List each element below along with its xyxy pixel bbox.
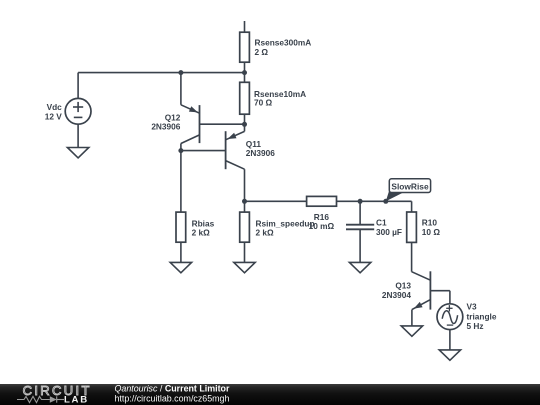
- ground below C1: [349, 262, 370, 272]
- label Q11 2N3906: [246, 139, 275, 158]
- svg-text:V3: V3: [467, 302, 478, 312]
- svg-text:10 Ω: 10 Ω: [422, 227, 441, 237]
- wire C1 bottom: [359, 229, 361, 262]
- svg-text:5 Hz: 5 Hz: [467, 321, 484, 331]
- junction Q11 collector / R16 rail: [242, 199, 247, 204]
- ground below Vdc: [67, 148, 88, 158]
- transistor Q13 (NPN 2N3904): [412, 271, 450, 326]
- wire node to R16 left: [245, 200, 307, 202]
- svg-text:2 Ω: 2 Ω: [255, 47, 269, 57]
- wire Vdc top: [77, 73, 79, 99]
- junction node below Rsense10mA (Q12 base / Q11 emitter): [242, 122, 247, 127]
- transistor Q12 (PNP 2N3906): [181, 73, 245, 151]
- svg-text:2N3906: 2N3906: [151, 122, 180, 132]
- wire R10 bottom to Q13 collector: [411, 242, 413, 271]
- svg-text:12 V: 12 V: [45, 111, 63, 121]
- label Q12 2N3906: [151, 113, 180, 132]
- footer bar: [0, 384, 540, 405]
- svg-text:Qantourisc / Current Limitor: Qantourisc / Current Limitor: [115, 383, 230, 393]
- wire Rsim_speedup bottom: [244, 242, 246, 262]
- ground below Q13 emitter: [401, 326, 422, 336]
- svg-text:triangle: triangle: [467, 311, 497, 321]
- resistor Rsim_speedup: [240, 212, 250, 242]
- wire C1 top: [359, 201, 361, 224]
- label Rsense10mA 70 Ω: [254, 89, 306, 108]
- wire R16 right to R10 top: [337, 200, 412, 202]
- wire Rsense10mA top: [244, 73, 246, 83]
- label Vdc 12 V: [45, 102, 63, 122]
- resistor Rbias: [176, 212, 186, 242]
- resistor Rsense10mA: [240, 82, 250, 114]
- wire main horizontal rail from Vdc: [78, 72, 244, 74]
- wire Vdc bottom: [77, 124, 79, 147]
- label R10 10 Ω: [422, 218, 441, 237]
- wire node B down to Rbias: [180, 151, 182, 213]
- junction SlowRise flag anchor: [383, 199, 388, 204]
- svg-text:2N3906: 2N3906: [246, 148, 275, 158]
- resistor Rsense300mA: [240, 32, 250, 62]
- wire V3 top: [449, 291, 451, 304]
- wire Rsense10mA bottom: [244, 114, 246, 124]
- resistor R16: [307, 196, 337, 206]
- junction rail / Q12 emitter: [178, 70, 183, 75]
- label Rsim_speedup 2 kΩ: [256, 218, 315, 237]
- label Rbias 2 kΩ: [192, 218, 215, 237]
- junction C1 tap: [358, 199, 363, 204]
- junction node A (rail / Rsense): [242, 70, 247, 75]
- svg-text:Vdc: Vdc: [47, 102, 63, 112]
- voltage source V3 (triangle): [437, 304, 463, 330]
- svg-text:SlowRise: SlowRise: [391, 182, 429, 192]
- label V3 triangle 5 Hz: [467, 302, 497, 331]
- resistor R10: [407, 212, 417, 242]
- wire R10 top: [411, 201, 413, 212]
- wire node B horizontal (Q12 collector to Q11 base): [181, 150, 226, 152]
- label Rsense300mA 2 Ω: [255, 38, 312, 57]
- ground below Rsim_speedup: [234, 262, 255, 272]
- net flag SlowRise: [386, 179, 431, 202]
- svg-text:300 µF: 300 µF: [376, 227, 402, 237]
- ground below Rbias: [170, 262, 191, 272]
- svg-text:2 kΩ: 2 kΩ: [192, 228, 211, 238]
- svg-text:70 Ω: 70 Ω: [254, 98, 273, 108]
- svg-text:http://circuitlab.com/cz65mgh: http://circuitlab.com/cz65mgh: [115, 394, 230, 404]
- label R16 10 mΩ: [309, 212, 335, 231]
- wire Rsense300mA bottom: [244, 62, 246, 72]
- CircuitLab logo schematic squiggle (resistor + diode): [17, 396, 64, 402]
- ground below V3: [439, 350, 460, 360]
- capacitor C1: [346, 225, 374, 230]
- wire V3 bottom: [449, 330, 451, 350]
- wire top stub above Rsense300mA: [244, 21, 246, 32]
- label C1 300 µF: [376, 218, 402, 237]
- svg-text:LAB: LAB: [64, 395, 89, 405]
- transistor Q11 (PNP 2N3906): [226, 124, 245, 212]
- svg-text:2 kΩ: 2 kΩ: [256, 228, 275, 238]
- svg-text:2N3904: 2N3904: [382, 290, 411, 300]
- junction node B: [178, 148, 183, 153]
- wire Rbias bottom: [180, 242, 182, 262]
- label Q13 2N3904: [382, 281, 411, 300]
- voltage source Vdc: [65, 98, 91, 124]
- svg-text:10 mΩ: 10 mΩ: [309, 221, 335, 231]
